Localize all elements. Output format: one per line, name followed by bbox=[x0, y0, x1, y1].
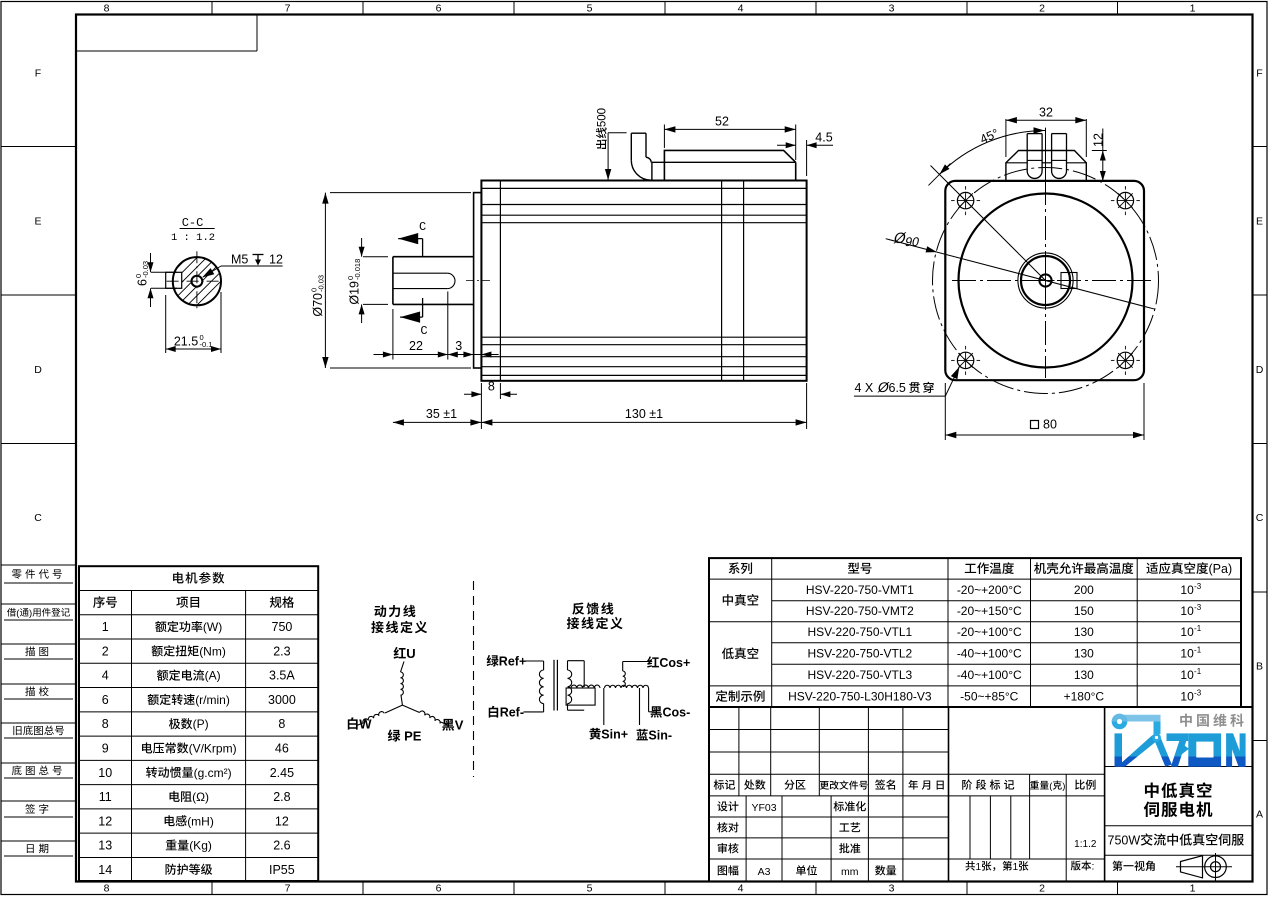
svg-text:F: F bbox=[1256, 68, 1262, 80]
svg-text:1: 1 bbox=[1190, 3, 1196, 15]
svg-text:): ) bbox=[1062, 781, 1065, 792]
svg-text:C: C bbox=[1256, 512, 1264, 524]
svg-text:500: 500 bbox=[597, 108, 609, 127]
svg-text:21.5: 21.5 bbox=[174, 335, 198, 349]
svg-text:10: 10 bbox=[1180, 625, 1194, 639]
svg-text:Ø19: Ø19 bbox=[348, 281, 362, 305]
svg-text:6.5: 6.5 bbox=[889, 381, 906, 395]
svg-text:130: 130 bbox=[1074, 625, 1094, 639]
svg-text:2: 2 bbox=[1039, 3, 1045, 15]
svg-text:-0.1: -0.1 bbox=[200, 340, 213, 349]
svg-text:(P): (P) bbox=[193, 717, 209, 731]
svg-text:(g.cm²): (g.cm²) bbox=[194, 766, 232, 780]
svg-text:Ref+: Ref+ bbox=[499, 655, 526, 669]
svg-text:-3: -3 bbox=[1194, 688, 1202, 697]
svg-text:4 X: 4 X bbox=[855, 381, 874, 395]
svg-text:22: 22 bbox=[409, 339, 423, 353]
svg-text:2: 2 bbox=[102, 644, 109, 658]
svg-text:IP55: IP55 bbox=[269, 863, 295, 877]
svg-text:750W: 750W bbox=[1108, 834, 1141, 848]
svg-text:(Ω): (Ω) bbox=[192, 790, 209, 804]
svg-text:6: 6 bbox=[436, 883, 442, 895]
svg-text:14: 14 bbox=[98, 863, 112, 877]
svg-text:-1: -1 bbox=[1194, 624, 1202, 633]
svg-text:-50~+85°C: -50~+85°C bbox=[960, 689, 1019, 703]
svg-text:7: 7 bbox=[285, 883, 291, 895]
svg-text:V: V bbox=[455, 718, 464, 733]
svg-text:1: 1 bbox=[102, 620, 109, 634]
svg-text:5: 5 bbox=[587, 883, 593, 895]
svg-text:A: A bbox=[1256, 809, 1263, 821]
svg-text:130: 130 bbox=[1074, 668, 1094, 682]
svg-text:Cos+: Cos+ bbox=[659, 656, 690, 670]
svg-text:-20~+150°C: -20~+150°C bbox=[957, 604, 1022, 618]
svg-text:F: F bbox=[35, 68, 41, 80]
svg-text:1: 1 bbox=[1013, 862, 1019, 873]
svg-text:750: 750 bbox=[272, 620, 293, 634]
svg-text:(Kg): (Kg) bbox=[189, 839, 212, 853]
svg-text:32: 32 bbox=[1039, 106, 1053, 120]
svg-text:7: 7 bbox=[285, 3, 291, 15]
svg-text:-0.018: -0.018 bbox=[353, 259, 362, 280]
svg-text:12: 12 bbox=[98, 814, 112, 828]
svg-text:Cos-: Cos- bbox=[663, 706, 691, 720]
svg-text:(Pa): (Pa) bbox=[1209, 562, 1233, 576]
svg-text:U: U bbox=[406, 646, 415, 661]
svg-text:3: 3 bbox=[889, 883, 895, 895]
svg-text:(A): (A) bbox=[205, 669, 221, 683]
svg-text:2.3: 2.3 bbox=[273, 644, 290, 658]
svg-text:PE: PE bbox=[401, 729, 422, 744]
svg-text:1 : 1.2: 1 : 1.2 bbox=[171, 232, 215, 244]
svg-text:2: 2 bbox=[1039, 883, 1045, 895]
svg-text:1: 1 bbox=[1190, 883, 1196, 895]
svg-text:130: 130 bbox=[1074, 646, 1094, 660]
svg-text:8: 8 bbox=[104, 3, 110, 15]
svg-text:(mH): (mH) bbox=[187, 814, 214, 828]
svg-text:+180°C: +180°C bbox=[1064, 689, 1105, 703]
svg-text:2.45: 2.45 bbox=[270, 766, 294, 780]
svg-text:-1: -1 bbox=[1194, 667, 1202, 676]
svg-text:C-C: C-C bbox=[182, 216, 204, 230]
svg-text:-3: -3 bbox=[1194, 582, 1202, 591]
svg-text:C: C bbox=[420, 324, 427, 338]
svg-text:(Nm): (Nm) bbox=[199, 644, 226, 658]
svg-text:-20~+200°C: -20~+200°C bbox=[957, 583, 1022, 597]
svg-text:9: 9 bbox=[102, 741, 109, 755]
svg-text:1:1.2: 1:1.2 bbox=[1074, 839, 1097, 850]
svg-text:HSV-220-750-VMT2: HSV-220-750-VMT2 bbox=[806, 604, 914, 618]
svg-text:2.6: 2.6 bbox=[273, 839, 290, 853]
svg-text:Ø70: Ø70 bbox=[311, 293, 325, 317]
svg-text:12: 12 bbox=[1092, 133, 1106, 147]
svg-text:-3: -3 bbox=[1194, 603, 1202, 612]
svg-text:12: 12 bbox=[275, 814, 289, 828]
svg-text:10: 10 bbox=[1180, 689, 1194, 703]
svg-text:10: 10 bbox=[98, 766, 112, 780]
svg-text:6: 6 bbox=[102, 693, 109, 707]
svg-text:mm: mm bbox=[841, 866, 859, 878]
svg-text:10: 10 bbox=[1180, 604, 1194, 618]
svg-text:8: 8 bbox=[104, 883, 110, 895]
svg-text:): ) bbox=[29, 608, 32, 619]
svg-text:-1: -1 bbox=[1194, 645, 1202, 654]
svg-text:YF03: YF03 bbox=[751, 802, 776, 814]
svg-text:-40~+100°C: -40~+100°C bbox=[957, 646, 1022, 660]
svg-text:8: 8 bbox=[488, 379, 495, 393]
svg-text:6: 6 bbox=[136, 279, 150, 286]
svg-text:1: 1 bbox=[976, 862, 982, 873]
svg-text:3000: 3000 bbox=[268, 693, 296, 707]
svg-text:13: 13 bbox=[98, 839, 112, 853]
svg-text:Ref-: Ref- bbox=[500, 706, 524, 720]
svg-text:Sin-: Sin- bbox=[648, 729, 672, 743]
svg-text:8: 8 bbox=[278, 717, 285, 731]
svg-text:35 ±1: 35 ±1 bbox=[426, 407, 457, 421]
svg-text:(r/min): (r/min) bbox=[195, 693, 230, 707]
svg-text:11: 11 bbox=[99, 790, 112, 804]
svg-text:4: 4 bbox=[738, 3, 744, 15]
svg-text:W: W bbox=[359, 717, 372, 732]
svg-text:130 ±1: 130 ±1 bbox=[625, 407, 663, 421]
svg-text:80: 80 bbox=[1043, 418, 1057, 432]
svg-text:90: 90 bbox=[904, 235, 921, 249]
svg-text:HSV-220-750-VTL3: HSV-220-750-VTL3 bbox=[807, 668, 912, 682]
svg-text:(V/Krpm): (V/Krpm) bbox=[189, 742, 237, 756]
svg-text:Sin+: Sin+ bbox=[601, 728, 628, 742]
svg-text::: : bbox=[1092, 861, 1095, 873]
svg-text:A3: A3 bbox=[758, 866, 771, 878]
svg-text:4.5: 4.5 bbox=[815, 131, 832, 145]
svg-text:46: 46 bbox=[275, 742, 289, 756]
svg-text:150: 150 bbox=[1074, 604, 1094, 618]
svg-text:C: C bbox=[34, 512, 42, 524]
svg-text:200: 200 bbox=[1074, 583, 1094, 597]
svg-text:HSV-220-750-VMT1: HSV-220-750-VMT1 bbox=[806, 583, 914, 597]
svg-text:2.8: 2.8 bbox=[273, 790, 290, 804]
svg-text:HSV-220-750-VTL2: HSV-220-750-VTL2 bbox=[807, 646, 912, 660]
svg-text:8: 8 bbox=[102, 717, 109, 731]
svg-text:5: 5 bbox=[587, 3, 593, 15]
svg-text:3.5A: 3.5A bbox=[269, 669, 295, 683]
svg-text:B: B bbox=[1256, 660, 1263, 672]
svg-text:12: 12 bbox=[269, 253, 283, 267]
svg-text:-0.03: -0.03 bbox=[141, 261, 150, 278]
svg-text:10: 10 bbox=[1180, 583, 1194, 597]
svg-text:-20~+100°C: -20~+100°C bbox=[957, 625, 1022, 639]
svg-text:E: E bbox=[34, 216, 41, 228]
svg-text:M5: M5 bbox=[231, 253, 248, 267]
svg-text:4: 4 bbox=[738, 883, 744, 895]
svg-text:HSV-220-750-VTL1: HSV-220-750-VTL1 bbox=[807, 625, 912, 639]
svg-text:3: 3 bbox=[889, 3, 895, 15]
svg-text:(W): (W) bbox=[203, 620, 222, 634]
svg-text:E: E bbox=[1256, 216, 1263, 228]
svg-text:6: 6 bbox=[436, 3, 442, 15]
svg-text:D: D bbox=[1256, 364, 1264, 376]
svg-text:-0.03: -0.03 bbox=[317, 275, 326, 292]
svg-text:-40~+100°C: -40~+100°C bbox=[957, 668, 1022, 682]
svg-text:C: C bbox=[419, 220, 426, 234]
svg-text:10: 10 bbox=[1180, 668, 1194, 682]
svg-text:HSV-220-750-L30H180-V3: HSV-220-750-L30H180-V3 bbox=[788, 689, 932, 703]
svg-text:52: 52 bbox=[715, 115, 729, 129]
svg-text:3: 3 bbox=[455, 339, 462, 353]
svg-text:D: D bbox=[34, 364, 42, 376]
svg-text:10: 10 bbox=[1180, 646, 1194, 660]
svg-text:4: 4 bbox=[102, 669, 109, 683]
